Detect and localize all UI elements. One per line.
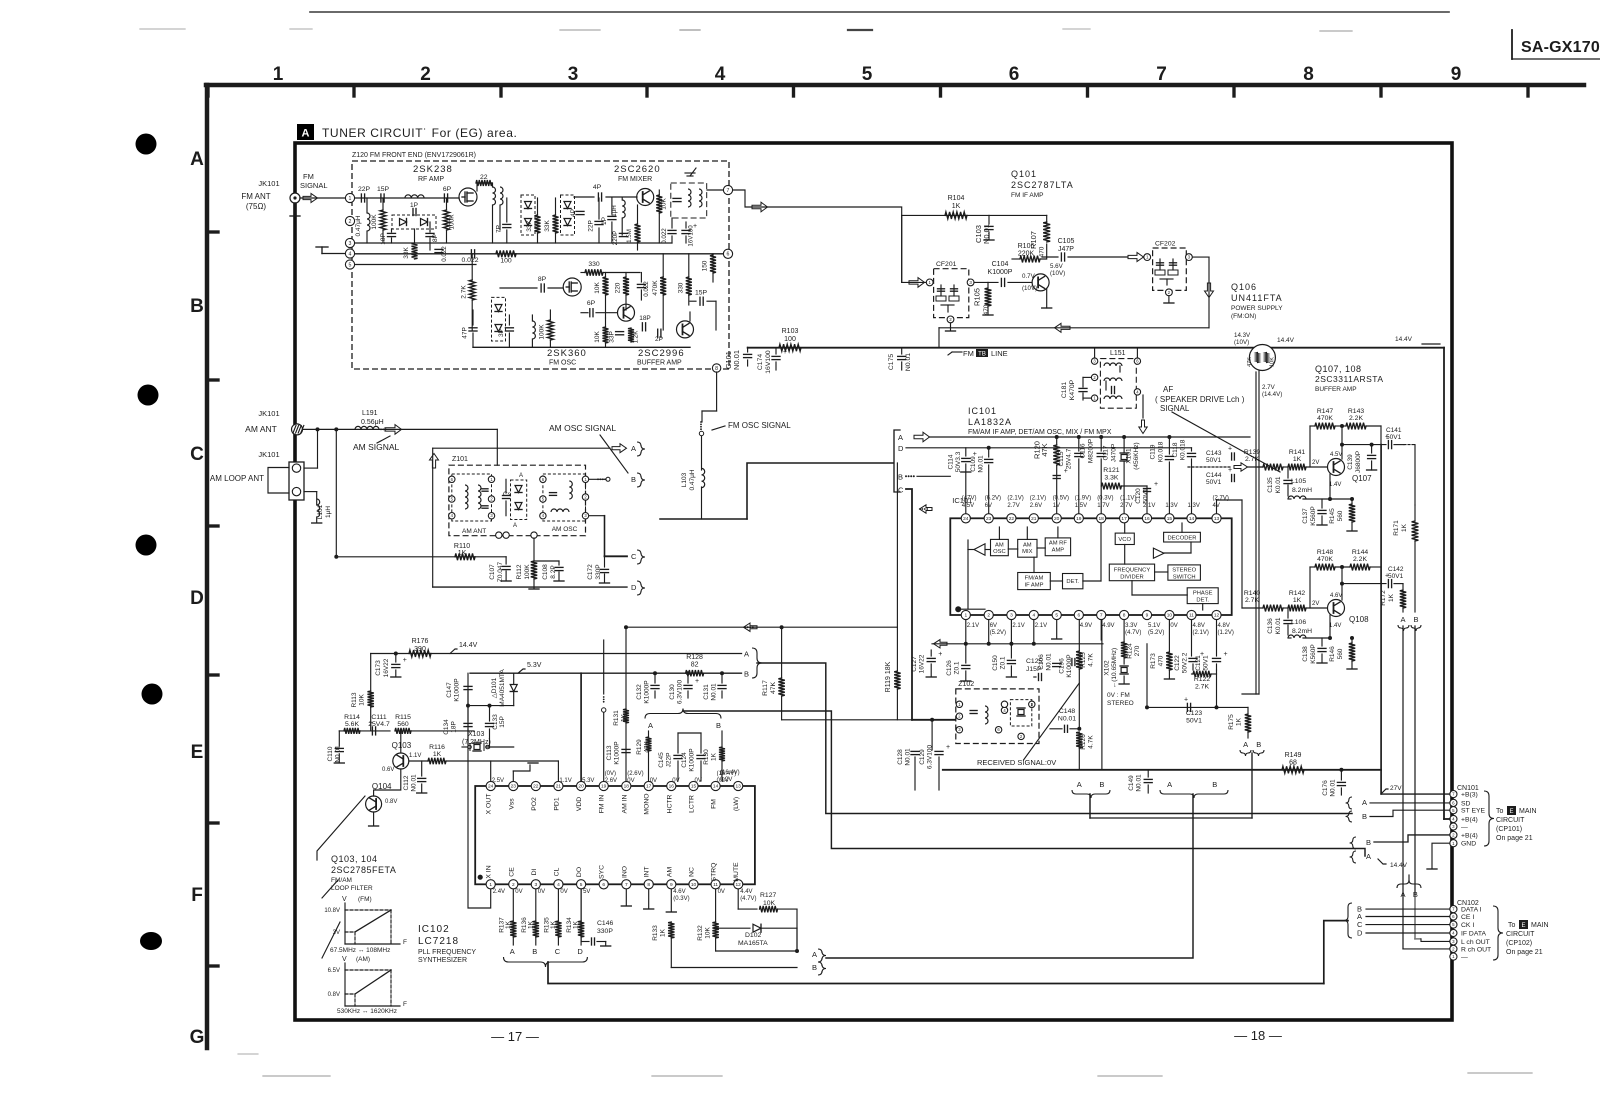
svg-text:150: 150	[702, 260, 709, 271]
svg-text:(AM): (AM)	[356, 956, 370, 963]
svg-text:(2.7V): (2.7V)	[1213, 496, 1229, 502]
svg-text:SYC: SYC	[599, 865, 606, 879]
B line down to CN102	[1414, 626, 1416, 895]
svg-text:R131: R131	[613, 710, 620, 726]
Z101 varactor dashed box	[511, 480, 527, 520]
capacitor 22P mixer	[595, 220, 603, 222]
svg-text:AM: AM	[1023, 543, 1032, 549]
svg-text:B: B	[744, 670, 749, 679]
svg-text:Q103: Q103	[392, 741, 412, 750]
IC101 pin 22	[1007, 514, 1016, 523]
svg-text:MA4051MTA: MA4051MTA	[499, 669, 506, 707]
svg-text:(0.5V): (0.5V)	[1053, 496, 1069, 502]
main schematic border	[295, 143, 1452, 1020]
svg-text:C127: C127	[911, 656, 918, 672]
CN102 pin 6 CE I	[1450, 913, 1457, 920]
svg-text:2SK360: 2SK360	[547, 348, 587, 359]
svg-text:R106: R106	[1018, 243, 1035, 250]
resistor 100K gate	[444, 210, 450, 230]
capacitor 8P	[426, 232, 434, 234]
svg-text:X103: X103	[468, 731, 484, 738]
svg-text:2SC2785FETA: 2SC2785FETA	[331, 865, 396, 875]
svg-text:3V: 3V	[333, 930, 340, 936]
Z101 bottom pins	[496, 532, 502, 538]
svg-text:N0.01: N0.01	[1058, 716, 1076, 723]
svg-text:12: 12	[1214, 613, 1220, 619]
svg-text:PO2: PO2	[531, 797, 538, 811]
svg-text:16V100: 16V100	[688, 225, 695, 247]
svg-text:2.7K: 2.7K	[461, 285, 468, 299]
IC101 internal connection wires	[968, 549, 974, 551]
capacitor 47P	[469, 327, 477, 329]
varactor dashed box mid	[521, 195, 535, 235]
IC101 pin 2	[984, 610, 993, 619]
IC102 pin 2 CE	[509, 880, 518, 889]
svg-text:10: 10	[1167, 613, 1173, 619]
section label A TUNER CIRCUIT	[297, 124, 314, 140]
svg-text:22P: 22P	[358, 186, 371, 193]
svg-text:25V4.7: 25V4.7	[1066, 448, 1073, 469]
svg-text:R105: R105	[973, 288, 982, 306]
svg-text:10.8V: 10.8V	[324, 908, 340, 914]
svg-text:0V: 0V	[515, 889, 522, 895]
A D B C bracket at IC101	[894, 430, 900, 492]
wire into Z102	[782, 719, 912, 721]
svg-text:B: B	[898, 473, 903, 482]
svg-text:8.2mH: 8.2mH	[1292, 628, 1312, 635]
svg-text:2.2K: 2.2K	[1353, 556, 1367, 563]
svg-text:19: 19	[601, 784, 607, 790]
svg-text:C110: C110	[327, 746, 334, 761]
svg-text:R103: R103	[782, 328, 799, 335]
svg-text:R113: R113	[351, 692, 358, 707]
svg-text:R127: R127	[760, 892, 776, 899]
svg-text:+: +	[1228, 467, 1232, 474]
IC101 pin 8	[1120, 610, 1129, 619]
svg-text:To: To	[1508, 922, 1516, 929]
wire pin1 to RF amp	[355, 197, 459, 199]
antenna trimmer symbol	[690, 168, 696, 176]
svg-text:(10V): (10V)	[1050, 270, 1065, 277]
registration dot 5	[140, 932, 162, 950]
svg-text:C172: C172	[587, 564, 594, 580]
transistor Q108	[1328, 600, 1345, 617]
svg-text:470: 470	[1158, 655, 1165, 666]
svg-text:C196: C196	[1059, 658, 1066, 674]
svg-text:+: +	[783, 349, 787, 356]
svg-text:C173: C173	[375, 660, 382, 676]
wire W1 up to CN101 A B brace	[1351, 812, 1353, 815]
svg-text:IC102: IC102	[418, 924, 450, 935]
svg-text:R171: R171	[1393, 520, 1400, 536]
wire AM ant	[303, 428, 497, 430]
IC101 pin 10	[1165, 610, 1174, 619]
svg-text:V: V	[342, 956, 347, 963]
svg-text:+: +	[938, 651, 942, 658]
registration dot 2	[138, 385, 159, 406]
svg-text:100K: 100K	[539, 324, 546, 340]
svg-text:X IN: X IN	[486, 865, 493, 878]
svg-text:R140: R140	[1244, 590, 1260, 597]
svg-text:C174: C174	[757, 354, 764, 370]
svg-text:6.3V100: 6.3V100	[677, 680, 684, 705]
IC101 pin 15	[1165, 514, 1174, 523]
svg-text:27V: 27V	[1390, 785, 1402, 792]
svg-text:330: 330	[678, 282, 685, 293]
wire pin13 top	[1216, 500, 1218, 513]
svg-text:14.4V: 14.4V	[1390, 862, 1408, 869]
svg-text:C121: C121	[1195, 655, 1202, 671]
IC101 VCO box	[1115, 533, 1134, 544]
svg-text:9: 9	[1451, 64, 1462, 85]
svg-text:17: 17	[646, 784, 652, 790]
svg-text:+: +	[1224, 651, 1228, 658]
L151 dashed box	[1100, 359, 1136, 409]
IC101 pin 5	[1052, 610, 1061, 619]
svg-text:C114: C114	[947, 454, 954, 469]
svg-text:FM IN: FM IN	[599, 795, 606, 814]
svg-text:C105: C105	[1058, 238, 1075, 245]
svg-text:BUFFER AMP: BUFFER AMP	[637, 360, 682, 367]
svg-text:4: 4	[557, 882, 560, 888]
resistor 33K lower	[412, 243, 418, 259]
transistor Q107	[1328, 459, 1345, 476]
svg-text:C149: C149	[1128, 775, 1135, 791]
svg-text:L ch OUT: L ch OUT	[1461, 939, 1490, 946]
svg-text:(10V): (10V)	[1234, 339, 1249, 346]
svg-text:SIGNAL: SIGNAL	[300, 181, 328, 190]
svg-text:(10V): (10V)	[1022, 285, 1037, 292]
IC101 PHASE DET box	[1187, 588, 1218, 604]
svg-text:—: —	[1461, 954, 1468, 961]
IC101 bottom bus	[932, 643, 1103, 645]
svg-text:2.5V: 2.5V	[492, 778, 504, 784]
svg-text:C129: C129	[919, 749, 926, 765]
svg-text:1.1V: 1.1V	[409, 753, 421, 759]
svg-text:0.022: 0.022	[661, 228, 668, 244]
svg-text:K0.01: K0.01	[1275, 617, 1282, 634]
svg-text:4.5V: 4.5V	[962, 503, 974, 509]
svg-text:GND: GND	[1461, 841, 1476, 848]
svg-text:8: 8	[647, 882, 650, 888]
svg-text:(1.1V): (1.1V)	[1120, 496, 1136, 502]
wire +B3 into pin7	[1381, 793, 1450, 795]
svg-text:AM OSC: AM OSC	[552, 526, 578, 533]
svg-text:4.7K: 4.7K	[1088, 735, 1095, 749]
svg-text:C181: C181	[1061, 382, 1068, 398]
svg-text:C150: C150	[992, 655, 999, 671]
svg-text:B: B	[1366, 838, 1371, 847]
FM signal arrow	[303, 194, 318, 203]
svg-text:1: 1	[349, 196, 352, 202]
svg-text:Q103, 104: Q103, 104	[331, 854, 378, 864]
svg-text:11: 11	[713, 882, 718, 888]
IC101 pin 17	[1120, 514, 1129, 523]
svg-text:(0.3V): (0.3V)	[1097, 496, 1113, 502]
Z120 FM front end module dashed box	[352, 161, 729, 369]
svg-text:X102: X102	[1103, 660, 1110, 676]
svg-text:C148: C148	[1059, 708, 1075, 715]
CN102 pin 2 R ch OUT	[1450, 945, 1457, 952]
svg-text:BUFFER AMP: BUFFER AMP	[1315, 386, 1357, 393]
feedthrough transistor circle with 47K 10K	[1249, 345, 1275, 371]
svg-text:RECEIVED SIGNAL:0V: RECEIVED SIGNAL:0V	[977, 758, 1056, 767]
svg-text:SWITCH: SWITCH	[1173, 575, 1196, 581]
svg-text:R173: R173	[1150, 653, 1157, 669]
svg-text:A: A	[1167, 780, 1172, 789]
Z101 AM OSC sub-box	[543, 474, 586, 521]
L151 output arrow down	[1142, 395, 1144, 418]
B arrow am	[589, 478, 604, 480]
svg-text:TUNER CIRCUIT˙ For (EG) area.: TUNER CIRCUIT˙ For (EG) area.	[322, 126, 517, 140]
wires into IC102 top	[490, 761, 492, 781]
svg-text:R149: R149	[1285, 752, 1302, 759]
FM 14.4V rail	[748, 347, 1444, 349]
svg-text:5.6V: 5.6V	[1050, 263, 1064, 270]
svg-text:B: B	[812, 963, 817, 972]
svg-text:(75Ω): (75Ω)	[246, 202, 267, 211]
svg-text:50V3.3: 50V3.3	[955, 451, 962, 472]
IC102 pin 8 INT	[644, 880, 653, 889]
svg-text:33K: 33K	[403, 247, 410, 259]
svg-text:K560P: K560P	[1310, 644, 1317, 664]
svg-text:AM: AM	[666, 867, 673, 878]
CN102 brace to E MAIN	[1493, 906, 1503, 960]
svg-text:A: A	[190, 149, 204, 170]
svg-text:A: A	[1243, 740, 1248, 749]
svg-text:+: +	[946, 744, 950, 751]
svg-text:N0.01: N0.01	[905, 748, 912, 766]
svg-text:14.4V: 14.4V	[1395, 336, 1413, 343]
svg-text:+: +	[1385, 573, 1389, 580]
svg-text:D: D	[1357, 929, 1363, 938]
svg-text:1.7V: 1.7V	[1097, 503, 1109, 509]
CN101 pin 3 —	[1450, 823, 1457, 830]
capacitor 0.022 bus	[470, 250, 472, 258]
left grid rule	[205, 85, 209, 1048]
svg-text:CE: CE	[508, 867, 515, 877]
svg-text:3: 3	[568, 64, 579, 85]
svg-text:N0.01: N0.01	[732, 350, 741, 370]
svg-text:STEREO: STEREO	[1172, 568, 1196, 574]
svg-text:A: A	[744, 650, 749, 659]
IC102 pin 1 X IN	[486, 880, 495, 889]
CN101 pin 5 ST EYE	[1450, 807, 1457, 814]
IC102 pin 6 SYC	[599, 880, 608, 889]
IC102 pin 10 NC	[689, 880, 698, 889]
resistor 10K mixer	[656, 195, 662, 213]
C wire	[589, 515, 605, 517]
svg-text:220: 220	[615, 282, 622, 293]
svg-text:C130: C130	[669, 684, 676, 700]
svg-text:R129: R129	[636, 739, 643, 755]
svg-text:7P: 7P	[496, 225, 503, 233]
svg-text:1K: 1K	[1401, 523, 1408, 532]
svg-text:MAIN: MAIN	[1519, 808, 1537, 815]
svg-text:K470P: K470P	[1069, 379, 1076, 400]
svg-text:+: +	[369, 720, 373, 727]
diagonal to received label	[1024, 683, 1080, 760]
svg-text:2.4V: 2.4V	[493, 889, 505, 895]
svg-text:LOOP FILTER: LOOP FILTER	[331, 885, 373, 892]
Z120 pin 1	[345, 193, 354, 202]
svg-text:R143: R143	[1348, 408, 1364, 415]
svg-text:AM LOOP ANT: AM LOOP ANT	[210, 474, 264, 483]
svg-text:B: B	[1212, 780, 1217, 789]
svg-text:NC: NC	[689, 867, 696, 877]
svg-text:(2.1V): (2.1V)	[1007, 496, 1023, 502]
svg-text:C124: C124	[681, 752, 688, 768]
svg-text:14: 14	[713, 784, 719, 790]
svg-text:ST EYE: ST EYE	[1461, 808, 1486, 815]
vertical wire x336	[335, 429, 337, 556]
CN101 brace to E MAIN	[1484, 791, 1494, 846]
svg-text:B: B	[631, 475, 636, 484]
svg-text:R145: R145	[1329, 508, 1336, 524]
capacitor 0.022 osc	[637, 283, 645, 285]
svg-text:FM OSC SIGNAL: FM OSC SIGNAL	[728, 421, 791, 430]
scan artifact bottom dashes	[263, 1075, 330, 1077]
svg-text:3.3K: 3.3K	[1104, 475, 1118, 482]
svg-text:Z102: Z102	[958, 681, 974, 688]
svg-text:FM OSC: FM OSC	[549, 360, 576, 367]
svg-text:INT: INT	[644, 867, 651, 878]
svg-text:50V1: 50V1	[1186, 718, 1202, 725]
svg-text:0.56μH: 0.56μH	[361, 419, 384, 426]
IC101 pin 12	[1212, 610, 1221, 619]
svg-text:D: D	[577, 947, 583, 956]
bottom rail of oscillator	[473, 346, 690, 348]
open arrow dotted line	[1234, 463, 1248, 471]
svg-text:0.8V: 0.8V	[385, 799, 397, 805]
IC101 body box	[950, 518, 1231, 615]
IC101 pin 4	[1029, 610, 1038, 619]
svg-text:2SC2996: 2SC2996	[638, 348, 685, 359]
svg-text:7: 7	[625, 882, 628, 888]
JK101 AM ANT connector	[292, 424, 303, 435]
IC102 pin 22 PO2	[531, 781, 540, 790]
svg-text:R146: R146	[1329, 646, 1336, 662]
L151 coils	[1104, 363, 1122, 366]
svg-text:2.7V: 2.7V	[1262, 384, 1276, 391]
Z120 pin 3	[345, 238, 354, 247]
svg-text:0.7V: 0.7V	[1022, 273, 1036, 280]
svg-text:4.8V: 4.8V	[1218, 623, 1230, 629]
GND pin1 wire	[1432, 843, 1450, 868]
svg-text:Q107: Q107	[1352, 474, 1372, 483]
svg-text:2.1V: 2.1V	[967, 623, 979, 629]
svg-text:(2.6V): (2.6V)	[627, 771, 643, 777]
resistor 33K a	[535, 215, 541, 233]
registration dot 3	[136, 535, 157, 556]
svg-text:2SK238: 2SK238	[413, 164, 453, 175]
svg-text:47K: 47K	[1040, 443, 1049, 456]
svg-text:C112: C112	[403, 775, 410, 790]
svg-text:VCO: VCO	[1118, 537, 1131, 543]
svg-text:F: F	[191, 885, 203, 906]
svg-text:DO: DO	[576, 867, 583, 877]
svg-text:23: 23	[511, 784, 517, 790]
IC102 pin 24 X OUT	[486, 781, 495, 790]
svg-text:A: A	[812, 950, 817, 959]
svg-text:Q101: Q101	[1011, 169, 1037, 179]
svg-text:LA1832A: LA1832A	[968, 417, 1012, 427]
svg-text:+B(4): +B(4)	[1461, 817, 1478, 824]
svg-text:470K: 470K	[652, 280, 659, 296]
A arrow am	[492, 478, 498, 480]
svg-text:20: 20	[578, 784, 584, 790]
svg-text:0V: 0V	[1170, 623, 1177, 629]
svg-text:+: +	[403, 657, 407, 664]
svg-text:22: 22	[1009, 516, 1015, 522]
svg-text:R142: R142	[1289, 590, 1305, 597]
svg-text:C109: C109	[970, 456, 977, 472]
arrow into FM IF	[909, 278, 925, 288]
svg-text:3: 3	[534, 882, 537, 888]
resistor 1.2K	[628, 328, 634, 342]
svg-text:PLL FREQUENCY: PLL FREQUENCY	[418, 949, 476, 956]
svg-text:A: A	[1077, 780, 1082, 789]
resistor 100K input	[380, 210, 386, 230]
svg-text:N0.01: N0.01	[1046, 653, 1053, 671]
svg-text:14.3V: 14.3V	[1234, 332, 1251, 339]
svg-text:(0.3V): (0.3V)	[673, 896, 689, 902]
svg-text:A: A	[510, 947, 515, 956]
svg-text:10K: 10K	[594, 331, 601, 343]
svg-text:1P: 1P	[601, 217, 608, 225]
svg-text:330P: 330P	[597, 928, 613, 935]
svg-text:MONO: MONO	[644, 793, 651, 814]
ground at pin4	[322, 253, 345, 255]
svg-text:11: 11	[1189, 613, 1194, 619]
svg-text:L105: L105	[1291, 478, 1306, 485]
brace over A B pair pins16 15	[645, 709, 721, 719]
A wire from R132	[716, 950, 797, 952]
svg-text:9: 9	[1146, 613, 1149, 619]
svg-text:5.3V: 5.3V	[582, 778, 594, 784]
CN101 pin 7 +B(3)	[1450, 791, 1457, 798]
svg-text:C126: C126	[946, 660, 953, 676]
svg-text:100K: 100K	[371, 214, 378, 230]
svg-text:A: A	[631, 444, 636, 453]
svg-text:18: 18	[624, 784, 630, 790]
wire AM down to bus	[496, 429, 498, 465]
wire CF202 out down	[1193, 256, 1209, 258]
resistor 100K osc	[547, 320, 553, 340]
svg-text:J47P: J47P	[1058, 246, 1074, 253]
svg-text:8: 8	[715, 366, 718, 372]
IC101 AM MIX box	[1018, 539, 1037, 557]
svg-text:24: 24	[488, 784, 494, 790]
IC101 pin 16	[1142, 514, 1151, 523]
wire 14.4V rail A	[371, 653, 742, 655]
svg-text:16V22: 16V22	[383, 658, 390, 677]
svg-text:1.5V: 1.5V	[1075, 503, 1087, 509]
IC101 pin 11	[1187, 610, 1196, 619]
svg-text:FM: FM	[963, 349, 974, 358]
svg-text:4: 4	[1032, 613, 1035, 619]
svg-text:14: 14	[1189, 516, 1195, 522]
svg-text:AMP: AMP	[1052, 548, 1065, 554]
svg-text:L151: L151	[1110, 350, 1126, 357]
FM B+ return wire	[939, 327, 1209, 329]
svg-text:2.7K: 2.7K	[1195, 684, 1209, 691]
svg-text:RF AMP: RF AMP	[418, 176, 444, 183]
Q107 emitter chain	[1329, 474, 1331, 499]
IC102 pin 17 MONO	[644, 781, 653, 790]
IC101 pin 24	[961, 514, 970, 523]
IC102 body box	[475, 786, 755, 884]
